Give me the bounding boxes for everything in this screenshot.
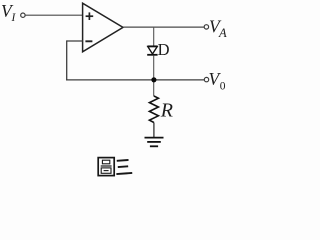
wire diode branch from output <box>153 27 155 46</box>
terminal VI <box>21 13 25 17</box>
wire bottom horizontal to V0 <box>66 79 204 81</box>
svg-text:A: A <box>218 26 227 40</box>
caption: character 三 <box>115 160 132 174</box>
terminal VA <box>204 25 208 29</box>
wire feedback vertical <box>66 40 68 80</box>
wire VI terminal to op-amp + input <box>25 14 82 16</box>
wire resistor to ground <box>153 123 155 138</box>
wire op-amp output to VA <box>123 26 204 28</box>
diode D <box>147 46 157 55</box>
op-amp U1 <box>83 3 123 52</box>
resistor R <box>149 96 158 123</box>
op-amp + input marker <box>86 12 94 20</box>
junction dot node V0 <box>151 77 156 82</box>
caption: character 圖 <box>98 158 114 176</box>
terminal V0 <box>204 77 208 81</box>
svg-text:0: 0 <box>220 80 226 92</box>
svg-text:D: D <box>158 40 170 59</box>
wire diode to junction <box>153 56 155 97</box>
op-amp - input marker <box>85 40 92 42</box>
wire - input stub <box>67 40 83 42</box>
svg-text:R: R <box>160 99 173 121</box>
ground <box>145 138 164 147</box>
